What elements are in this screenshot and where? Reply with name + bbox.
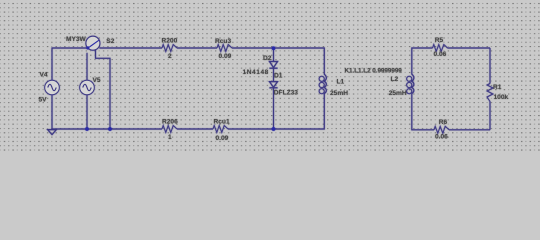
svg-text:DFLZ33: DFLZ33	[274, 89, 299, 96]
diode D2 (1N4148)	[243, 55, 278, 76]
wire top rail (switch right terminal to R200)	[99, 47, 162, 49]
switch S2 (model MY3W)	[66, 36, 115, 50]
svg-text:0.09: 0.09	[216, 135, 229, 142]
wire switch control - staircase down to bottom rail	[96, 50, 111, 129]
wire top rail (Rcu3 to node D2, to L1 top)	[232, 48, 324, 75]
wire V5 top (switch control + to V5)	[86, 53, 88, 81]
resistor R1 value 100k	[487, 84, 509, 102]
wire top rail (R200 to Rcu3)	[177, 47, 217, 49]
voltage source V4 (sine source, 5V)	[39, 72, 60, 104]
wire right loop top (L2 top to R5 to R1 top)	[412, 48, 433, 75]
inductor L2 25mH	[389, 74, 414, 97]
wire diode branch (node to D2, D2-D1, D1 to bottom node)	[273, 49, 275, 62]
wire bottom rail (ground to R206)	[52, 128, 162, 130]
svg-text:R206: R206	[162, 119, 178, 126]
resistor Rcu3 value 0.09	[215, 38, 232, 60]
voltage source V5 (sine source)	[80, 77, 101, 95]
wire right loop bottom (R6)	[449, 129, 490, 131]
svg-text:1N4148: 1N4148	[243, 69, 269, 76]
wire bottom rail (R206 to Rcu1)	[177, 128, 213, 130]
ground	[48, 130, 57, 135]
svg-text:Rcu3: Rcu3	[215, 38, 231, 45]
wire top rail left (V4 top to switch S2 left terminal)	[52, 48, 87, 81]
svg-text:MY3W: MY3W	[66, 36, 87, 43]
node: bottom junction at switch staircase	[108, 127, 112, 131]
resistor R200 value 2	[162, 38, 178, 60]
resistor R206 value 1	[162, 119, 178, 142]
wire left rail (V4 bottom to ground/bottom rail)	[51, 95, 53, 130]
wire right loop right side (R1 leads)	[489, 48, 491, 84]
svg-text:D2: D2	[263, 55, 272, 62]
svg-text:V4: V4	[40, 72, 48, 79]
svg-text:L1: L1	[337, 79, 345, 86]
resistor Rcu1 value 0.09	[213, 119, 230, 142]
svg-text:0.06: 0.06	[434, 51, 447, 58]
svg-text:R6: R6	[439, 119, 448, 126]
inductor L1 25mH	[319, 74, 348, 97]
resistor R6 value 0.06	[434, 119, 449, 140]
wire bottom rail (Rcu1 to diode node to L1 bottom)	[228, 94, 324, 129]
wire V5 bottom to bottom rail	[86, 95, 88, 130]
diode D1 (DFLZ33 zener)	[269, 73, 298, 97]
node: bottom junction at V5	[85, 127, 89, 131]
svg-text:V5: V5	[93, 77, 101, 84]
svg-text:5V: 5V	[39, 97, 48, 104]
svg-text:25mH: 25mH	[389, 90, 407, 97]
node: top junction at D2 branch	[272, 46, 276, 50]
svg-text:R5: R5	[435, 37, 444, 44]
svg-text:1: 1	[168, 134, 172, 141]
svg-text:R200: R200	[162, 38, 178, 45]
svg-text:K1.L1.L2 0.9999999: K1.L1.L2 0.9999999	[345, 67, 403, 74]
svg-text:2: 2	[168, 53, 172, 60]
svg-text:Rcu1: Rcu1	[214, 119, 230, 126]
svg-text:25mH: 25mH	[330, 90, 348, 97]
node: bottom junction at diode branch	[272, 127, 276, 131]
svg-text:S2: S2	[106, 38, 114, 45]
svg-text:0.06: 0.06	[435, 134, 448, 141]
svg-text:100k: 100k	[494, 94, 509, 101]
svg-text:R1: R1	[493, 84, 502, 91]
svg-text:L2: L2	[391, 76, 399, 83]
resistor R5 value 0.06	[433, 37, 448, 58]
svg-text:0.09: 0.09	[219, 53, 232, 60]
svg-text:D1: D1	[274, 73, 283, 80]
